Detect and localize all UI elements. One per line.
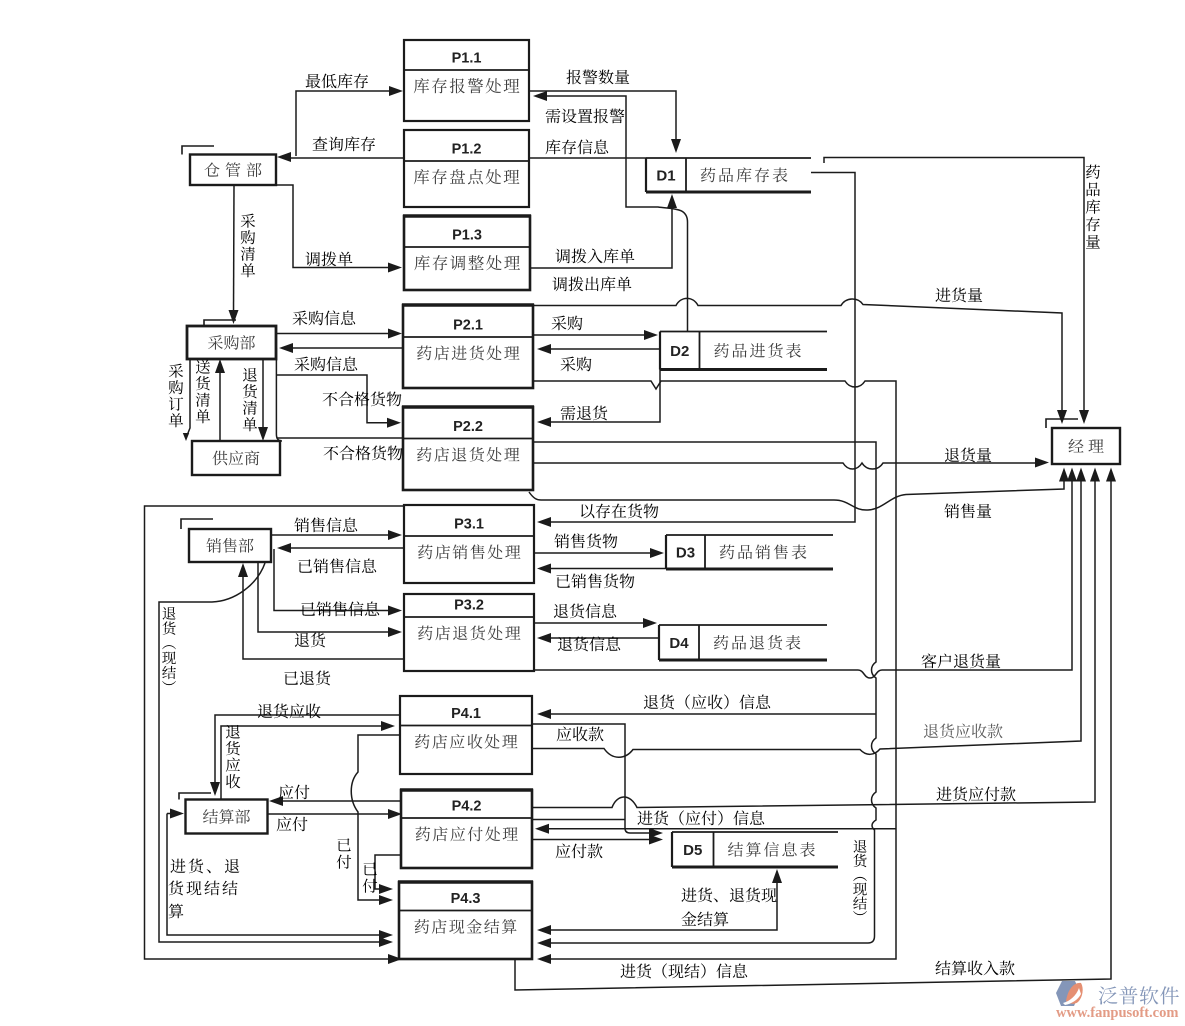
flow 销售量 wire to 经理 (529, 468, 1069, 511)
svg-text:P4.2: P4.2 (452, 799, 482, 815)
label 采购 1 (552, 316, 583, 331)
label 调拨入库单 (555, 248, 634, 263)
flow 采购清单 wire 仓管部 to 采购部 (229, 185, 239, 324)
flow 采购信息 return wire P2.1 to 采购部 (279, 343, 403, 353)
flow 不合格货物 wire to P2.2 (276, 375, 401, 428)
label 退货应收 vertical (226, 725, 241, 788)
logo 泛普软件 text (1099, 986, 1179, 1004)
label 已销售信息 2 (301, 601, 379, 616)
label 算 block (169, 904, 184, 919)
flow 已销售信息 wire P3.1 to 销售部 (277, 543, 404, 553)
external entity 供应商 (192, 441, 280, 475)
process P4.1 药店应收处理 (400, 696, 532, 774)
label 不合格货物 2 (324, 445, 403, 460)
flow 进货、退货现金结算 wire P4.3 to D5 (537, 869, 782, 935)
data store D2 药品进货表 (660, 332, 827, 370)
wire P4.2 divider extension (532, 819, 625, 821)
label 进货量 (935, 287, 982, 302)
label 进货、退 block (170, 858, 239, 873)
data store D4 药品退货表 (659, 625, 827, 660)
svg-text:P4.3: P4.3 (451, 891, 481, 907)
flow 已销售信息 wire to P3.2 (274, 549, 402, 616)
label 采购信息 (293, 310, 356, 325)
flow 以存在货物 wire D1 to P3.1 (537, 173, 855, 528)
flow 采购订单 wire 采购部 to 供应商 (183, 359, 190, 441)
flow 退货信息 return wire D4 to P3.2 (537, 633, 659, 643)
flow 结算收入款 wire P4.3 to 经理 (515, 468, 1116, 991)
process P2.1 药店进货处理 (402, 305, 534, 388)
flow 不合格货物 wire P2.2 to 供应商 (276, 437, 403, 439)
svg-text:D1: D1 (656, 168, 675, 185)
label 最低库存 (306, 73, 368, 88)
flow 已退货 wire P3.2 to 销售部 (238, 563, 404, 659)
flow 采购 return wire D2 to P2.1 (537, 344, 660, 354)
label 不合格货物 1 (323, 391, 402, 406)
process P3.1 药店销售处理 (404, 505, 534, 583)
label 调拨单 (305, 251, 352, 266)
flow 调拨单 wire (276, 185, 402, 273)
flow 退货应收 wire 结算部 to P4.1 (221, 721, 395, 799)
flow 销售信息 wire 销售部 to P3.1 (271, 530, 402, 540)
flow 退货（现结） outer wire P3.1 to P4.3 (145, 506, 405, 964)
label 送货清单 vertical (196, 360, 210, 424)
flow 退货量 wire P2.2 to 经理 (533, 458, 1049, 470)
external entity 仓管部 (182, 146, 276, 185)
label 需退货 (561, 405, 608, 420)
svg-text:D3: D3 (676, 545, 695, 562)
svg-text:D4: D4 (669, 635, 689, 652)
label 应付款 (556, 843, 603, 858)
label 退货信息 1 (554, 603, 616, 618)
label 退货应收 (258, 703, 321, 718)
label 进货、退货现 (681, 887, 776, 902)
data store D3 药品销售表 (666, 535, 833, 569)
label 查询库存 (313, 136, 375, 151)
process P4.2 药店应付处理 (400, 790, 533, 868)
flow 进货（应付）信息 branch wire to P4.2 (535, 824, 896, 834)
flow 进货退货现结结算 wire 结算部 to P4.3 (167, 809, 393, 941)
label 退货信息 2 (558, 636, 620, 651)
svg-text:P1.3: P1.3 (452, 228, 482, 244)
flow 退货 wire 销售部 to P3.2 (258, 562, 402, 637)
external entity 结算部 (179, 793, 268, 834)
label 进货（应付）信息 (637, 810, 764, 825)
flow 最低库存 wire (296, 86, 403, 156)
label 退货（现结） vertical left (162, 607, 176, 685)
svg-text:D5: D5 (683, 842, 702, 859)
label 退货（现结） vertical right (853, 840, 867, 915)
flow 应付 wire 结算部 to P4.2 (268, 809, 402, 819)
flow 已付 wire P4.1 to P4.3 (351, 735, 400, 905)
label 销售货物 (554, 533, 617, 548)
svg-text:P2.2: P2.2 (453, 419, 483, 435)
flow 退货应收款 wire P4.1 to 经理 (532, 468, 1086, 758)
label 销售量 (944, 503, 991, 518)
label 调拨出库单 (552, 276, 631, 291)
flow 退货（现结） long wire P2.2 down to P4.3 (533, 442, 876, 948)
data store D1 药品库存表 (646, 158, 811, 192)
external entity 采购部 (187, 320, 276, 359)
svg-text:P1.1: P1.1 (452, 51, 482, 67)
svg-text:P3.1: P3.1 (454, 517, 484, 533)
process P1.1 库存报警处理 (404, 40, 529, 121)
logo 泛普软件 icon (1056, 981, 1083, 1006)
label 需设置报警 (546, 109, 625, 124)
label 已销售信息 1 (298, 558, 376, 573)
svg-text:P4.1: P4.1 (451, 706, 481, 722)
flow 进货应付款 wire P4.2 to 经理 (532, 468, 1100, 808)
svg-text:P1.2: P1.2 (452, 142, 482, 158)
flow 退货应收 wire P4.1 to 结算部 (210, 715, 400, 796)
flow 不合格货物 wire junction down to 供应商 (276, 348, 282, 441)
flow 已销售货物 wire D3 to P3.1 (537, 564, 666, 574)
svg-text:P3.2: P3.2 (454, 598, 484, 614)
label 退货 (295, 632, 325, 647)
svg-text:www.fanpusoft.com: www.fanpusoft.com (1056, 1005, 1178, 1021)
flow 销售货物 wire P3.1 to D3 (534, 548, 664, 558)
flow 应付款 wire P4.2 to D5 (532, 835, 663, 845)
label 退货量 (945, 447, 991, 462)
label 采购信息 2 (295, 356, 358, 371)
label 已退货 (284, 670, 330, 685)
flow 退货信息 wire P3.2 to D4 (534, 618, 657, 628)
flow 应付 wire P4.2 to 结算部 (269, 796, 401, 806)
svg-text:D2: D2 (670, 343, 689, 360)
label 已付 vertical 2 (363, 862, 377, 893)
label 退货清单 vertical (243, 368, 257, 431)
flow 应收款 wire P4.1 to D5 (532, 724, 663, 838)
process P2.2 药店退货处理 (402, 407, 534, 490)
label 退货应收款 grey (924, 723, 1003, 738)
process P4.3 药店现金结算 (398, 882, 533, 959)
label 进货（现结）信息 (620, 963, 747, 978)
label 已销售货物 (556, 573, 634, 588)
label 已付 vertical 1 (337, 838, 351, 869)
label 应付 1 (279, 784, 310, 799)
flow 退货清单 wire 采购部 to 供应商 (258, 359, 268, 441)
label 采购 2 (561, 357, 592, 372)
flow 需设置报警 wire D2 to P1.1 (533, 91, 688, 331)
label 进货应付款 (936, 786, 1015, 801)
flow 进货信息 long wire P2.1 down right side (533, 381, 896, 964)
external entity 销售部 (181, 519, 271, 562)
label 客户退货量 (922, 653, 1001, 668)
flow 采购信息 wire 采购部 to P2.1 (276, 329, 402, 339)
label 金结算 (681, 911, 728, 926)
flow 送货清单 wire 供应商 to 采购部 (215, 359, 225, 441)
flow 报警数量 wire P1.1 to D1 (529, 91, 681, 153)
label 应收款 (557, 726, 604, 741)
label 采购清单 vertical (241, 214, 255, 278)
flow 退货（现结） wire 销售部 to P4.3 (159, 563, 393, 947)
label 退货（应收）信息 (644, 694, 770, 709)
label 结算收入款 (936, 961, 1015, 976)
process P1.2 库存盘点处理 (404, 130, 529, 207)
label 报警数量 (567, 70, 630, 85)
flow 药品库存量 wire D1 to 经理 (824, 158, 1089, 425)
svg-text:P2.1: P2.1 (453, 318, 483, 334)
flow 查询库存/库存信息 wire D1 to 仓管部 (277, 152, 646, 162)
external entity 经理 (1046, 419, 1120, 464)
label 库存信息 (546, 139, 609, 154)
flow 客户退货量 wire P3.2 to 经理 (534, 468, 1077, 679)
process P3.2 药店退货处理 (404, 594, 534, 671)
process P1.3 库存调整处理 (403, 216, 531, 290)
flow 调拨入库单 wire P1.3 to D1 (529, 194, 677, 268)
label 货现结结 block (169, 880, 238, 895)
flow 需退货 wire D2 to P2.2 (537, 370, 660, 428)
label 采购订单 vertical (169, 364, 183, 428)
flow 采购 wire P2.1 to D2 (533, 330, 658, 340)
label 销售信息 (294, 517, 357, 532)
label 以存在货物 (581, 503, 658, 518)
flow 进货量 wire P2.1 to 经理 (533, 298, 1067, 424)
flow 已付 wire P4.2 to P4.3 (375, 855, 401, 894)
label 药品库存量 vertical (1086, 165, 1100, 249)
data store D5 结算信息表 (672, 832, 838, 867)
label 应付 2 (277, 816, 308, 831)
flow 退货（应收）信息 branch wire to P4.1 (537, 709, 876, 719)
